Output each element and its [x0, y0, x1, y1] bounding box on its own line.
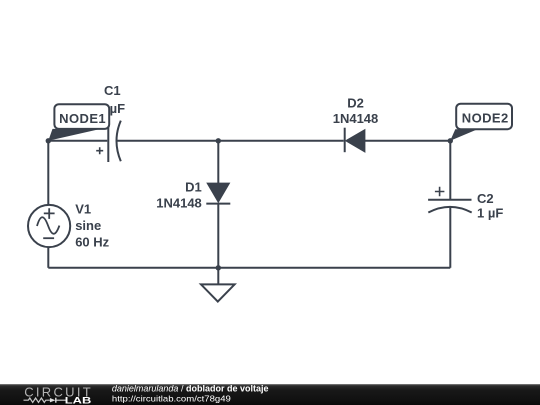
svg-text:NODE1: NODE1 — [59, 111, 106, 126]
svg-text:C1: C1 — [104, 83, 121, 98]
svg-text:sine: sine — [75, 218, 101, 233]
svg-text:danielmarulanda / doblador de: danielmarulanda / doblador de voltaje — [112, 384, 269, 394]
svg-text:NODE2: NODE2 — [462, 111, 509, 126]
svg-text:D1: D1 — [185, 179, 202, 194]
svg-text:D2: D2 — [347, 95, 364, 110]
svg-text:1 µF: 1 µF — [477, 205, 503, 220]
svg-text:http://circuitlab.com/ct78g49: http://circuitlab.com/ct78g49 — [112, 393, 231, 403]
svg-text:C2: C2 — [477, 191, 494, 206]
svg-text:V1: V1 — [75, 202, 91, 217]
svg-text:60 Hz: 60 Hz — [75, 234, 109, 249]
svg-text:1N4148: 1N4148 — [333, 111, 379, 126]
svg-text:LAB: LAB — [65, 396, 92, 405]
svg-text:1N4148: 1N4148 — [156, 195, 202, 210]
